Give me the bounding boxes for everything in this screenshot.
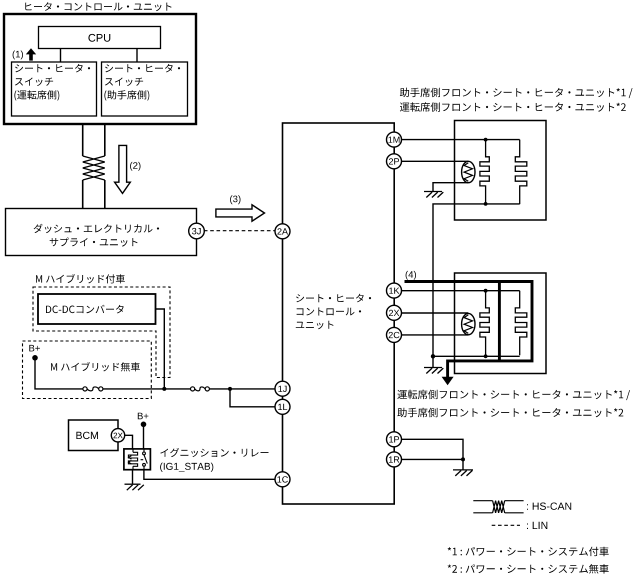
connector 1P	[387, 432, 402, 447]
connector 1L	[275, 399, 290, 414]
M hybrid not-equipped dashed box	[23, 341, 152, 399]
front seat heater unit box (bottom)	[455, 273, 547, 374]
label (1)	[13, 51, 23, 60]
label: (driver side)	[14, 90, 59, 100]
label (2)	[130, 162, 140, 171]
B+ terminal dot	[32, 355, 38, 361]
heater element (top unit, left)	[480, 140, 489, 205]
connector 3J	[189, 223, 205, 239]
seat heater switch (driver side) box	[12, 62, 97, 116]
junction dot bottom (bottom unit)	[484, 354, 488, 358]
label: seat heater control unit line1	[296, 294, 371, 303]
wire element return to ground bus	[433, 204, 520, 356]
thick arrow head down	[442, 377, 454, 385]
label: seat heater switch (passenger) line1	[105, 64, 180, 73]
connector 2P	[387, 154, 402, 169]
ground (relay)	[125, 484, 144, 490]
label: M hybrid equipped	[36, 274, 125, 283]
twisted pair wires to dash unit	[83, 125, 105, 209]
wire relay coil to ground	[132, 470, 134, 484]
wire 2C to thermostat bottom	[402, 334, 469, 336]
note *2 power seat system not equipped	[448, 564, 609, 574]
junction node DC-DC/B+ bus	[162, 387, 166, 391]
wire B+ to fuse	[35, 358, 83, 389]
wire CPU to driver switch	[60, 49, 62, 63]
ignition relay box	[124, 449, 150, 470]
label: seat heater control unit line2	[297, 308, 362, 316]
B+ terminal dot 2	[141, 422, 147, 428]
wire relay contact to 1C	[144, 470, 275, 480]
label: seat heater switch (passenger) line2	[105, 78, 143, 87]
front seat heater unit box (top)	[455, 121, 547, 221]
label (3)	[230, 195, 240, 204]
junction dot top (bottom unit)	[484, 289, 488, 293]
ground (top unit)	[424, 192, 443, 198]
connector 1K	[387, 283, 402, 298]
connector 2X (BCM)	[111, 429, 124, 442]
M hybrid equipped dashed outline	[33, 287, 170, 378]
ground (1P/1R)	[453, 470, 473, 476]
wire fuse1 to fuse2	[103, 388, 191, 390]
connector 1C	[275, 472, 290, 487]
label: dash electrical supply unit line1	[34, 224, 160, 233]
label (4)	[406, 271, 416, 280]
connector 1R	[387, 452, 402, 467]
junction node 1P/1R	[461, 457, 465, 461]
connector 2C	[387, 327, 402, 342]
wire 1K to heater elements	[402, 290, 520, 292]
arrow (2) hollow down	[115, 145, 131, 193]
junction dot top	[484, 138, 488, 142]
ground stub	[432, 356, 434, 367]
label: seat heater switch (driver) line2	[15, 78, 53, 87]
relay contact symbol	[141, 449, 148, 470]
label: heater control unit title	[25, 2, 171, 11]
heater control unit outer box	[4, 14, 196, 124]
connector 1J	[275, 381, 290, 396]
caption: passenger front seat heater unit *2 (bottom)	[397, 408, 623, 418]
wire 1R to ground	[402, 458, 463, 460]
wire junction to 1L	[230, 389, 275, 407]
heater element (bottom unit, left)	[480, 291, 489, 356]
CPU box	[39, 27, 161, 49]
junction node ground bus	[431, 354, 435, 358]
label B+ (battery)	[29, 345, 40, 352]
relay coil symbol	[128, 449, 137, 470]
ground stub 1P/1R	[462, 459, 464, 469]
label: M hybrid not equipped	[51, 362, 140, 371]
note *1 power seat system equipped	[448, 547, 609, 557]
wire thermostat to ground	[433, 183, 468, 192]
caption: driver front seat heater unit *1 (bottom)	[397, 390, 630, 401]
DC-DC converter box	[38, 294, 156, 324]
connector 1M	[387, 132, 402, 147]
label: (passenger side)	[104, 90, 149, 100]
dash electrical supply unit box	[6, 209, 197, 256]
inline connector/fuse 2	[191, 387, 210, 391]
wire DC-DC to B+ bus	[156, 309, 165, 389]
wire B+ to relay contact	[143, 424, 145, 449]
wire fuse2 to 1J	[209, 388, 275, 390]
thermostat (bottom unit)	[462, 313, 475, 334]
arrow (1) solid up	[26, 48, 36, 60]
heater element (bottom unit, right)	[515, 291, 527, 356]
legend HS-CAN twisted pair symbol	[473, 501, 523, 513]
wire element return (bottom unit)	[433, 355, 520, 357]
legend label HS-CAN	[527, 503, 571, 510]
BCM box	[69, 420, 119, 451]
junction dot bottom	[484, 202, 488, 206]
label: DC-DC converter	[46, 305, 124, 314]
twist symbol	[83, 156, 105, 180]
wire BCM 2X to relay coil	[125, 435, 133, 449]
heater element (top unit, right)	[515, 140, 527, 205]
label: seat heater control unit line3	[296, 321, 334, 329]
thermostat (top unit)	[462, 161, 475, 182]
caption: passenger front seat heater unit *1 (top)	[400, 88, 633, 99]
wire 2P to thermostat	[402, 160, 469, 162]
label B+ (relay)	[138, 413, 149, 420]
caption: driver front seat heater unit *2 (top)	[400, 102, 626, 112]
inline connector/fuse 1	[83, 387, 103, 391]
wire 2X to thermostat	[402, 312, 469, 314]
legend LIN dashed line	[492, 524, 520, 526]
seat heater control unit box	[283, 123, 395, 504]
junction node to 1L	[228, 387, 232, 391]
label: ignition relay	[160, 448, 268, 457]
label: dash electrical supply unit line2	[50, 238, 138, 247]
thick wire (4) path	[405, 282, 533, 378]
wire 1P to ground	[402, 439, 463, 459]
connector 2X	[387, 305, 402, 320]
seat heater switch (passenger side) box	[102, 62, 188, 116]
label (IG1_STAB)	[160, 463, 213, 472]
label CPU	[88, 34, 110, 42]
wire dashed LIN 3J to 2A	[204, 230, 275, 232]
wire 1M to heater elements	[402, 139, 520, 141]
label BCM	[76, 432, 98, 439]
arrow (3) hollow right	[216, 205, 265, 221]
wire CPU to passenger switch	[136, 49, 138, 63]
connector 2A	[275, 224, 290, 239]
ground (bottom unit)	[424, 368, 443, 374]
legend label LIN	[527, 522, 547, 529]
label: seat heater switch (driver) line1	[15, 64, 90, 73]
